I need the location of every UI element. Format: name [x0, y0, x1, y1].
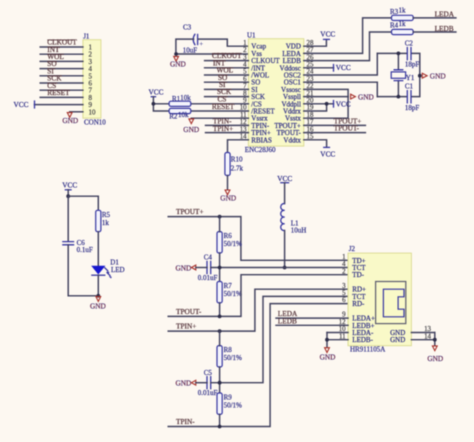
svg-text:1k: 1k [399, 6, 407, 14]
svg-text:GND: GND [320, 352, 336, 361]
svg-text:3: 3 [89, 59, 93, 66]
resistor R2 10k [169, 108, 191, 120]
wire U1 pin3 CLKOUT [205, 51, 249, 60]
svg-text:2: 2 [89, 52, 93, 59]
resistor R5 1k [96, 210, 111, 231]
wire pins 10 11 gnd drop [326, 333, 328, 348]
node C3 Vss junction [174, 52, 178, 56]
svg-text:GND: GND [176, 263, 192, 272]
svg-text:RESET: RESET [212, 102, 235, 111]
wire VCC to R5 [68, 196, 98, 210]
svg-text:5: 5 [89, 73, 93, 80]
wire LED to bottom rail [97, 275, 99, 296]
node pin19 pin20 junction [325, 102, 329, 106]
svg-text:0.1uF: 0.1uF [77, 246, 93, 254]
svg-text:+: + [199, 40, 203, 48]
svg-text:5: 5 [342, 290, 346, 297]
svg-text:CON10: CON10 [84, 119, 106, 127]
svg-text:TPOUT-: TPOUT- [334, 124, 360, 133]
wire R5 to LED D1 [97, 232, 99, 266]
ground GND pins 22 21 18 [351, 93, 374, 102]
svg-text:1k: 1k [399, 20, 407, 28]
svg-text:ENC28J60: ENC28J60 [245, 146, 276, 154]
ground GND C4 [176, 263, 208, 272]
svg-text:2: 2 [342, 268, 346, 275]
svg-text:Y1: Y1 [406, 74, 415, 82]
wire U1 pin4 INT [205, 58, 249, 67]
svg-text:GND: GND [427, 354, 443, 363]
wire net LEDB [413, 24, 456, 33]
wire U1 pin20 Vddpll to VCC [304, 103, 334, 105]
svg-text:9: 9 [89, 102, 93, 109]
ground GND C3 [170, 56, 186, 68]
svg-text:TPIN+: TPIN+ [176, 322, 196, 331]
wire net LEDB to J2 pin12 [276, 316, 348, 325]
power VCC L1 [277, 174, 292, 204]
wire net TPIN+ row [168, 289, 348, 331]
ground GND C5 [176, 379, 208, 388]
ground GND U1 pin11 [183, 119, 199, 134]
node TPOUT- R7 junction [218, 315, 222, 319]
wire U1 pin13 TPIN+ [206, 124, 249, 133]
resistor R8 50/1% [217, 346, 242, 367]
wire J1 pin3 WOL [40, 52, 83, 61]
svg-text:HR911105A: HR911105A [350, 346, 385, 354]
svg-text:10: 10 [89, 109, 96, 116]
ground GND J1 pin10 [62, 112, 83, 125]
wire R6 chain [219, 217, 221, 282]
svg-text:1: 1 [342, 254, 346, 261]
wire C5 to TCT2 row [211, 296, 348, 382]
svg-text:LED: LED [111, 266, 125, 274]
capacitor C6 0.1uF [62, 239, 93, 254]
wire J2 pin11 LEDB- [327, 339, 348, 341]
capacitor C4 0.01uF [198, 254, 218, 282]
svg-text:Vddtx: Vddtx [283, 136, 301, 144]
svg-text:TPOUT+: TPOUT+ [176, 207, 204, 216]
LED D1 [91, 258, 124, 278]
wire J1 pin5 SI [40, 66, 83, 75]
svg-text:GND: GND [176, 379, 192, 388]
svg-text:C1: C1 [405, 82, 414, 90]
wire L1 to TCT row [284, 231, 286, 268]
wire U1 pin24 OSC2 to crystal top [304, 53, 378, 75]
U1 left pin numbers [240, 40, 247, 141]
wire net LEDA to J2 pin9 [276, 309, 348, 318]
node TPIN- R9 junction [218, 425, 222, 429]
svg-text:TPIN-: TPIN- [176, 417, 195, 426]
IC U1 ENC28J60 [245, 31, 304, 153]
svg-text:2: 2 [243, 47, 247, 54]
svg-text:LEDB: LEDB [278, 316, 297, 325]
svg-text:GND: GND [358, 93, 374, 102]
node L1 TCT junction [283, 266, 287, 270]
svg-text:J2: J2 [349, 245, 356, 253]
svg-text:6: 6 [342, 297, 346, 304]
svg-text:18pF: 18pF [405, 60, 420, 68]
resistor R9 50/1% [217, 393, 242, 414]
svg-text:1: 1 [89, 45, 93, 52]
svg-text:TPIN+: TPIN+ [213, 124, 233, 133]
connector J1 [83, 33, 106, 127]
svg-text:R4: R4 [390, 21, 399, 29]
svg-text:LEDB: LEDB [435, 24, 454, 33]
node TPOUT+ R6 junction [218, 215, 222, 219]
wire R7 to TPOUT- row [219, 303, 221, 317]
ground GND J2 pins 13 14 [427, 346, 443, 363]
svg-text:4: 4 [342, 261, 346, 268]
wire C3 to U1 pin1 Vcap [176, 39, 249, 54]
node crystal bottom junction [397, 95, 401, 99]
svg-text:C4: C4 [204, 254, 213, 262]
svg-text:LEDA: LEDA [435, 9, 455, 18]
svg-text:TPOUT-: TPOUT- [176, 307, 202, 316]
svg-text:6: 6 [89, 81, 93, 88]
node VCC R5 C6 junction [66, 194, 70, 198]
power VCC pin25 [334, 63, 351, 72]
svg-text:VCC: VCC [320, 30, 335, 39]
node pin14 gnd junction [433, 338, 437, 342]
wire U1 pin28 VDD to VCC [304, 40, 327, 47]
wire net LEDA [413, 9, 456, 18]
wire J1 pin8 RESET [40, 88, 83, 97]
wire net TPOUT+ row [168, 207, 348, 260]
J2 pin names [352, 257, 405, 344]
svg-text:2.7k: 2.7k [231, 164, 244, 172]
U1 right pin names [274, 43, 301, 145]
svg-text:U1: U1 [247, 31, 256, 39]
svg-text:GND: GND [90, 302, 106, 311]
resistor R6 50/1% [217, 232, 242, 253]
wire U1 pin7 SI [205, 80, 249, 89]
svg-text:4: 4 [89, 66, 93, 73]
svg-text:R5: R5 [102, 211, 111, 219]
wire U1 pin25 Vddosc to VCC [304, 67, 334, 69]
svg-text:7: 7 [89, 88, 93, 95]
svg-text:J1: J1 [83, 33, 90, 41]
wire pins 13 14 gnd drop [434, 333, 436, 346]
svg-text:1: 1 [243, 40, 247, 47]
wire crystal bottom row [377, 76, 420, 97]
J2 pin numbers [339, 254, 432, 340]
wire U1 pin19 Vddrx [304, 104, 327, 111]
svg-text:R9: R9 [224, 394, 233, 402]
svg-text:VCC: VCC [14, 100, 29, 109]
svg-text:R6: R6 [224, 232, 233, 240]
inductor L1 10uH [281, 204, 307, 235]
wire U1 pin18 Vsstx [304, 97, 348, 119]
wire U1 pin16 TPOUT- stub [304, 124, 366, 133]
wire U1 pin14 RBIAS to R10 [228, 140, 249, 153]
svg-text:GND: GND [220, 194, 236, 203]
node C5 R8R9 junction [218, 381, 222, 385]
ground GND crystal [422, 72, 445, 81]
svg-text:VCC: VCC [149, 88, 164, 97]
wire U1 pin26 LEDB to R4 [304, 32, 392, 61]
wire C6 to bottom rail [68, 245, 98, 296]
svg-text:RESET: RESET [47, 88, 70, 97]
wire U1 pin12 TPIN- [206, 116, 249, 125]
ground GND R10 [220, 190, 236, 203]
wire J1 pin2 INT [40, 45, 83, 54]
svg-text:50/1%: 50/1% [224, 354, 242, 362]
capacitor C1 18pF [405, 82, 420, 112]
svg-text:GND: GND [183, 125, 199, 134]
wire J1 pin7 CS [40, 81, 83, 90]
node LED gnd junction [96, 294, 100, 298]
wire J2 pin13 GND [411, 332, 434, 334]
resistor R10 2.7k [225, 153, 244, 176]
wire J1 pin4 SO [40, 59, 83, 68]
resistor R1 10k [169, 94, 191, 106]
power VCC pins 20 19 [334, 99, 351, 108]
resistor R4 1k [390, 20, 413, 35]
wire U1 pin23 OSC1 to crystal bottom [304, 82, 378, 96]
svg-text:TD-: TD- [352, 271, 364, 279]
svg-text:VCC: VCC [320, 149, 335, 158]
resistor R7 50/1% [217, 282, 242, 303]
wire U1 pin15 Vddtx to VCC [304, 140, 327, 147]
wire C4 to TCT row [211, 267, 348, 269]
svg-text:VCC: VCC [277, 174, 292, 183]
svg-text:50/1%: 50/1% [224, 290, 242, 298]
power VCC LED circuit [62, 180, 77, 196]
capacitor C3 [183, 24, 204, 55]
wire U1 pin9 CS from R1 [191, 94, 249, 103]
svg-text:C3: C3 [183, 24, 192, 32]
svg-text:C5: C5 [204, 369, 213, 377]
wire U1 pin6 SO [205, 73, 249, 82]
svg-text:R2: R2 [169, 112, 178, 120]
wire U1 pin5 WOL [205, 66, 249, 75]
wire C6 branch [67, 196, 69, 240]
svg-text:R8: R8 [224, 346, 233, 354]
svg-text:50/1%: 50/1% [224, 240, 242, 248]
svg-text:LEDB-: LEDB- [352, 336, 373, 344]
svg-text:10uH: 10uH [291, 227, 307, 235]
wire R8 chain [219, 331, 221, 393]
svg-text:50/1%: 50/1% [224, 402, 242, 410]
node crystal gnd junction [418, 74, 422, 78]
wire J2 pin10 LEDA- [327, 332, 348, 334]
wire U1 pin21 Vsspll [304, 96, 348, 98]
svg-text:0.01uF: 0.01uF [198, 274, 218, 282]
svg-text:RD-: RD- [352, 300, 365, 308]
svg-text:VCC: VCC [336, 63, 351, 72]
svg-text:3: 3 [342, 283, 346, 290]
svg-text:GND: GND [390, 336, 405, 344]
connector J2 HR911105A [348, 245, 411, 353]
power VCC pullup rail [149, 88, 170, 111]
resistor R3 1k [390, 6, 413, 20]
svg-text:VCC: VCC [336, 99, 351, 108]
node C4 R6R7 junction [218, 266, 222, 270]
capacitor C5 0.01uF [198, 369, 218, 397]
svg-text:D1: D1 [110, 258, 119, 266]
U1 left pin names [251, 43, 280, 145]
svg-text:1k: 1k [102, 219, 110, 227]
wire J2 pin14 GND [411, 339, 434, 341]
svg-text:R10: R10 [231, 156, 243, 164]
wire net TPIN- row [168, 304, 348, 427]
power VCC pin28 [320, 30, 335, 40]
svg-text:0.01uF: 0.01uF [198, 389, 218, 397]
svg-text:GND: GND [62, 116, 78, 125]
svg-text:10k: 10k [180, 94, 191, 102]
wire U1 pin27 LEDA to R3 [304, 18, 392, 54]
wire crystal top row [377, 53, 420, 75]
U1 right pin numbers [307, 40, 314, 141]
svg-text:VCC: VCC [62, 180, 77, 189]
wire U1 pin22 Vssosc [304, 89, 348, 96]
power VCC J1 pin9 [14, 100, 83, 109]
ground GND J2 pins 10 11 [320, 348, 336, 362]
crystal Y1 [391, 53, 415, 96]
svg-text:10k: 10k [178, 111, 189, 119]
wire U1 pin2 Vss [176, 53, 249, 55]
wire R10 to ground [227, 176, 229, 190]
wire U1 pin8 SCK [205, 87, 249, 96]
wire J1 pin6 SCK [40, 74, 83, 83]
svg-text:R7: R7 [224, 282, 233, 290]
wire U1 pin10 RESET from R2 [191, 102, 249, 111]
wire U1 pin11 Vssrx [191, 117, 248, 119]
wire net TPOUT- row [168, 275, 348, 317]
power VCC pin15 [320, 147, 335, 158]
wire J1 pin1 CLKOUT [40, 38, 83, 47]
svg-text:RBIAS: RBIAS [251, 136, 272, 144]
node crystal top junction [397, 52, 401, 56]
node TPIN+ R8 junction [218, 329, 222, 333]
svg-text:18pF: 18pF [405, 104, 420, 112]
wire U1 pin17 TPOUT+ stub [304, 116, 366, 125]
svg-text:R3: R3 [390, 8, 399, 16]
svg-text:C2: C2 [405, 39, 414, 47]
node pin11 gnd junction [325, 338, 329, 342]
RJ45 jack symbol [376, 282, 406, 324]
svg-text:GND: GND [430, 72, 446, 81]
svg-text:8: 8 [89, 95, 93, 102]
capacitor C2 18pF [405, 39, 420, 68]
ground GND LED circuit [90, 297, 106, 311]
svg-text:GND: GND [170, 59, 186, 68]
wire R9 to TPIN- row [219, 414, 221, 426]
